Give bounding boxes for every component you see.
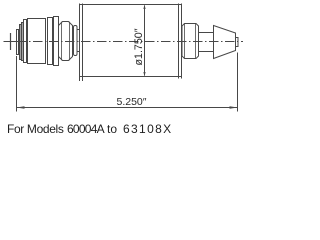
svg-text:ø1.750″: ø1.750″ <box>133 28 145 65</box>
svg-text:5.250″: 5.250″ <box>117 96 147 108</box>
svg-text:For Models: For Models <box>7 122 64 136</box>
svg-text:to: to <box>107 122 117 136</box>
svg-text:63108X: 63108X <box>123 122 172 136</box>
svg-text:60004A: 60004A <box>67 122 105 136</box>
